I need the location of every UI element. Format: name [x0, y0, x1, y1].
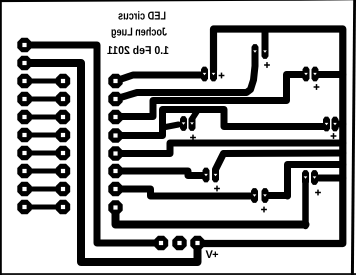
- wire LED E left pad riser: [302, 178, 309, 227]
- wire LED G right pad to rail: [216, 153, 343, 170]
- wire LED B right pad to top bus: [262, 29, 269, 52]
- wire LED F right pad riser: [192, 111, 198, 120]
- wire m7 to LED H left pad: [116, 189, 255, 196]
- wire V+ spine: P3 to rail to top bus: [198, 29, 343, 244]
- plus D7: [214, 186, 220, 192]
- wire m2 to LED B left pad: [116, 53, 256, 99]
- wire net row1: pin1 to pad P1: [25, 45, 160, 243]
- wire m6 to LED G left pad: [116, 171, 206, 176]
- wire m3 to LED C left pad: [116, 75, 306, 117]
- wire m4 riser and bus to LED D left pad: [116, 110, 327, 136]
- link R7: [25, 187, 64, 192]
- link R1: [25, 79, 64, 84]
- svg-text:V+: V+: [206, 249, 219, 261]
- power pads P1 P2 P3: [154, 236, 205, 250]
- wire LED C right pad to rail: [315, 71, 343, 78]
- LED D6 pads: [180, 116, 187, 131]
- link R5: [25, 151, 64, 156]
- wire m5 to rail: [116, 143, 343, 154]
- resistor jumper links R1-R8: [25, 81, 64, 207]
- link R3: [25, 115, 64, 120]
- LED D7 pads: [203, 168, 210, 183]
- link R4: [25, 133, 64, 138]
- svg-text:Jochen Lueg: Jochen Lueg: [111, 27, 167, 39]
- svg-text:1.0 Feb 2011: 1.0 Feb 2011: [106, 45, 169, 57]
- mirrored silkscreen text: [106, 11, 218, 262]
- plus D6: [190, 135, 196, 141]
- wire stub to LED F left pad: [163, 125, 179, 128]
- frame right: [351, 0, 356, 275]
- LED D8 pads: [251, 188, 258, 203]
- plus D3: [314, 84, 320, 90]
- LED D2 pads: [252, 44, 259, 59]
- link R6: [25, 169, 64, 174]
- text line: Jochen Lueg (mirrored): [111, 27, 167, 39]
- frame bottom: [0, 273, 356, 275]
- text line: LED circus (mirrored): [118, 11, 166, 23]
- LED D3 pads: [303, 67, 310, 82]
- plus D8: [261, 207, 267, 213]
- frame top: [0, 0, 356, 2]
- plus D2: [264, 62, 270, 68]
- wire m1 to LED A left pad: [116, 75, 205, 81]
- LED D4 pads: [323, 117, 330, 132]
- link R8: [25, 205, 64, 210]
- svg-text:LED circus: LED circus: [118, 11, 166, 23]
- wire LED H right pad stub: [265, 192, 288, 199]
- wire elbow rail to H riser: [288, 165, 343, 197]
- LED D5 pads: [302, 170, 309, 185]
- IC U1 pin column pads: [108, 74, 122, 215]
- plus D1: [219, 73, 225, 79]
- plus D5: [315, 190, 321, 196]
- wire LED E right pad to rail: [315, 175, 343, 182]
- frame left: [0, 0, 2, 275]
- connector J1 left column pads: [17, 38, 31, 214]
- plus D4: [331, 133, 337, 139]
- LED D1 pads: [201, 67, 208, 82]
- link R2: [25, 97, 64, 102]
- wire LED D right pad to rail: [335, 121, 343, 128]
- text line: 1.0 Feb 2011 (mirrored): [106, 45, 169, 57]
- wire m8 loop: [116, 208, 306, 225]
- connector J1 right column pads: [56, 74, 70, 214]
- wire net V+: pin2 rail loop, right rail, top bus to LED A cathode: [25, 63, 198, 262]
